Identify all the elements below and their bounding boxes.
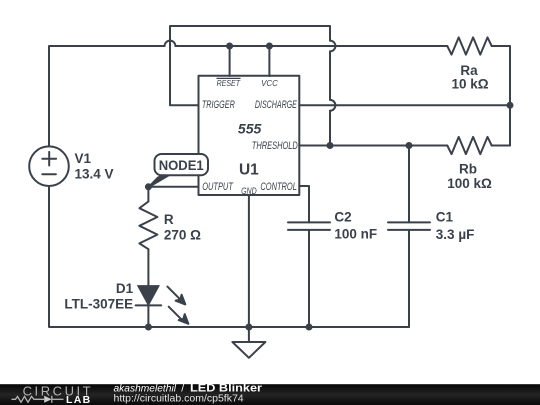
svg-text:RESET: RESET xyxy=(217,78,241,88)
svg-text:100 nF: 100 nF xyxy=(334,226,377,241)
svg-text:C1: C1 xyxy=(436,210,454,225)
svg-text:VCC: VCC xyxy=(261,78,278,88)
svg-text:13.4 V: 13.4 V xyxy=(75,167,114,182)
svg-text:http://circuitlab.com/cp5fk74: http://circuitlab.com/cp5fk74 xyxy=(114,393,244,405)
svg-text:NODE1: NODE1 xyxy=(159,157,204,173)
svg-text:TRIGGER: TRIGGER xyxy=(202,99,235,111)
svg-text:10 kΩ: 10 kΩ xyxy=(451,77,488,92)
svg-text:R: R xyxy=(164,212,174,227)
svg-text:555: 555 xyxy=(238,120,262,136)
svg-text:V1: V1 xyxy=(75,151,92,166)
svg-text:LTL-307EE: LTL-307EE xyxy=(64,297,133,312)
svg-text:D1: D1 xyxy=(116,281,134,296)
svg-text:GND: GND xyxy=(241,186,257,196)
svg-text:Rb: Rb xyxy=(459,161,477,176)
svg-text:U1: U1 xyxy=(239,161,259,178)
svg-text:100 kΩ: 100 kΩ xyxy=(447,176,492,191)
svg-text:270 Ω: 270 Ω xyxy=(164,228,201,243)
svg-text:CONTROL: CONTROL xyxy=(260,181,297,193)
svg-text:C2: C2 xyxy=(334,210,351,225)
svg-text:DISCHARGE: DISCHARGE xyxy=(255,99,297,111)
svg-text:3.3 µF: 3.3 µF xyxy=(436,227,475,242)
svg-text:OUTPUT: OUTPUT xyxy=(202,181,234,193)
svg-text:THRESHOLD: THRESHOLD xyxy=(252,140,298,152)
svg-text:LAB: LAB xyxy=(66,394,91,405)
